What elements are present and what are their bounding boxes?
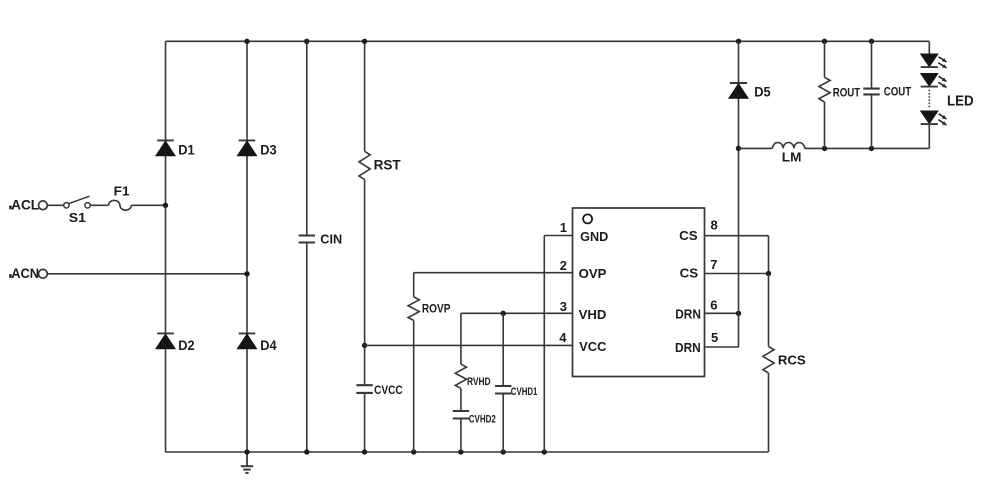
svg-text:D2: D2 — [178, 338, 195, 353]
svg-text:CVHD1: CVHD1 — [511, 386, 538, 398]
svg-text:5: 5 — [711, 330, 718, 345]
svg-text:CVHD2: CVHD2 — [469, 414, 496, 426]
svg-text:3: 3 — [560, 299, 567, 314]
svg-text:D1: D1 — [178, 143, 195, 158]
svg-text:RCS: RCS — [778, 352, 806, 367]
svg-text:CVCC: CVCC — [374, 384, 403, 397]
svg-text:6: 6 — [710, 297, 717, 312]
svg-text:1: 1 — [560, 220, 567, 235]
svg-text:VCC: VCC — [579, 339, 606, 354]
svg-text:7: 7 — [710, 257, 717, 272]
svg-text:CS: CS — [680, 266, 699, 281]
svg-text:D4: D4 — [260, 338, 277, 353]
svg-text:D5: D5 — [754, 84, 771, 99]
svg-text:8: 8 — [711, 218, 718, 233]
svg-text:VHD: VHD — [579, 307, 607, 322]
svg-text:D3: D3 — [260, 143, 277, 158]
svg-text:CS: CS — [679, 228, 698, 243]
svg-text:ROVP: ROVP — [422, 302, 451, 315]
svg-text:ACL: ACL — [11, 197, 39, 212]
svg-text:RST: RST — [374, 157, 402, 172]
svg-text:F1: F1 — [114, 183, 130, 198]
svg-text:CIN: CIN — [320, 233, 342, 247]
svg-text:LED: LED — [947, 94, 974, 110]
svg-text:ACN: ACN — [11, 266, 39, 281]
svg-text:GND: GND — [580, 229, 608, 244]
svg-text:4: 4 — [559, 330, 567, 345]
svg-text:DRN: DRN — [675, 340, 701, 355]
svg-text:S1: S1 — [69, 210, 86, 225]
svg-text:RVHD: RVHD — [467, 376, 491, 388]
svg-text:OVP: OVP — [579, 266, 607, 281]
svg-text:ROUT: ROUT — [833, 87, 861, 100]
svg-text:LM: LM — [782, 151, 802, 165]
svg-text:DRN: DRN — [675, 306, 701, 321]
svg-text:2: 2 — [560, 258, 567, 273]
svg-text:COUT: COUT — [884, 86, 912, 99]
